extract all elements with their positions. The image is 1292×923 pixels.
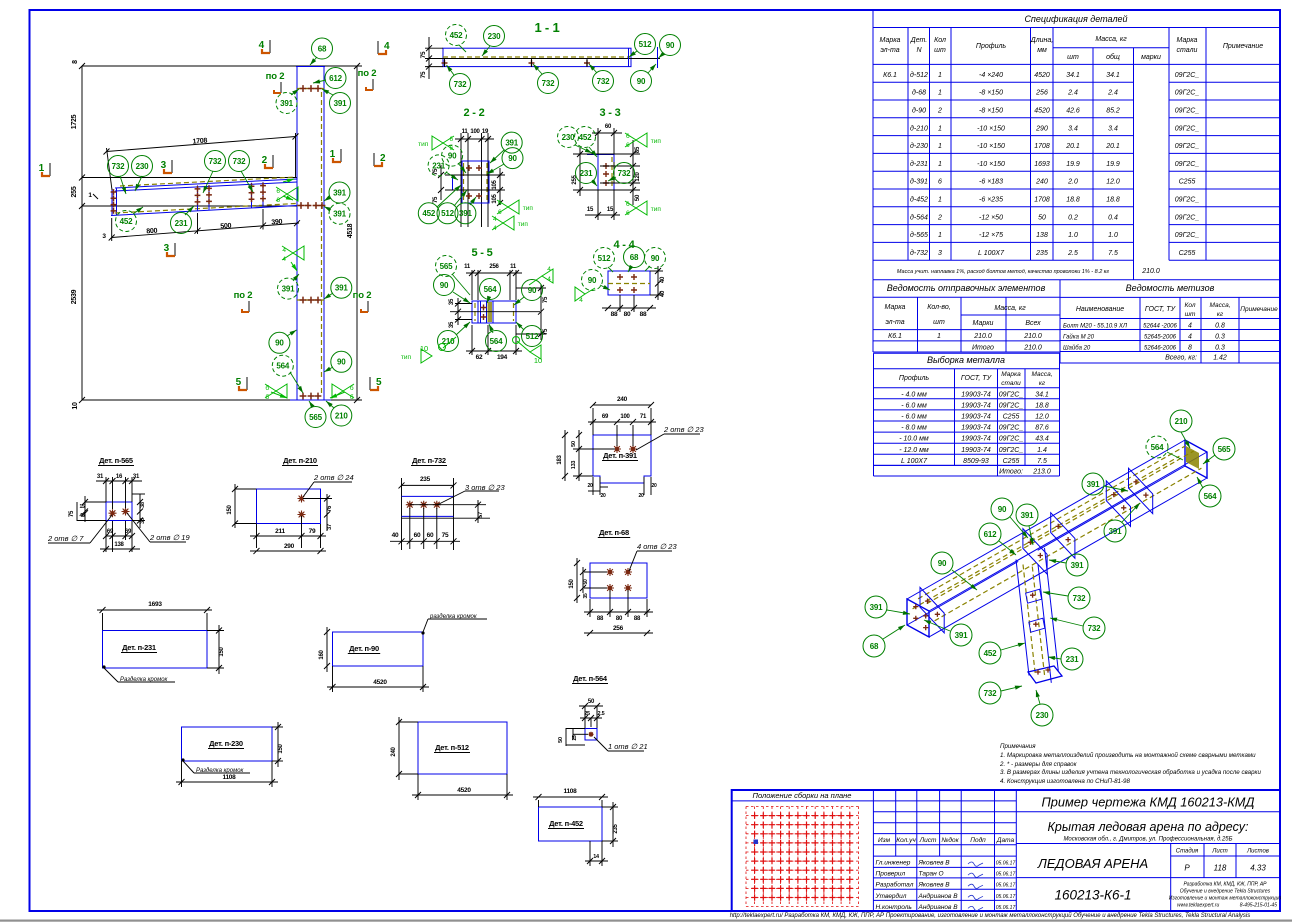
svg-text:60: 60 <box>414 532 421 539</box>
svg-text:2 отв ∅ 24: 2 отв ∅ 24 <box>313 473 354 482</box>
svg-text:75: 75 <box>420 71 427 78</box>
svg-text:1: 1 <box>938 143 942 150</box>
svg-text:Выборка металла: Выборка металла <box>927 355 1005 365</box>
svg-text:90: 90 <box>666 41 675 50</box>
svg-text:391: 391 <box>1109 527 1122 536</box>
svg-text:34.1: 34.1 <box>1035 391 1049 398</box>
svg-text:90: 90 <box>275 339 284 348</box>
svg-text:0.8: 0.8 <box>1215 323 1225 330</box>
svg-text:100: 100 <box>470 129 480 135</box>
svg-text:Дет. п-565: Дет. п-565 <box>99 456 133 465</box>
svg-text:19.9: 19.9 <box>1106 161 1120 168</box>
svg-text:11: 11 <box>462 129 469 135</box>
red assembly-position grid <box>746 807 859 907</box>
svg-text:19903-74: 19903-74 <box>961 414 991 421</box>
svg-text:6: 6 <box>626 142 630 149</box>
svg-text:52646-2006: 52646-2006 <box>1144 346 1177 352</box>
svg-text:2 отв ∅ 7: 2 отв ∅ 7 <box>47 534 84 543</box>
svg-text:Примечание: Примечание <box>1223 43 1263 50</box>
svg-text:Дет. п-391: Дет. п-391 <box>603 451 637 460</box>
svg-text:90: 90 <box>528 286 537 295</box>
svg-text:Примечания: Примечания <box>1000 743 1036 750</box>
svg-text:2: 2 <box>262 155 268 166</box>
svg-text:Марка: Марка <box>1001 371 1021 378</box>
svg-text:2.0: 2.0 <box>1067 179 1078 186</box>
column splice seams <box>297 88 324 90</box>
svg-text:09Г2С_: 09Г2С_ <box>1175 197 1200 204</box>
svg-text:8: 8 <box>72 60 79 64</box>
svg-text:шт: шт <box>933 319 945 326</box>
svg-text:по 2: по 2 <box>358 68 377 79</box>
svg-text:д-512: д-512 <box>910 71 928 79</box>
svg-text:390: 390 <box>271 219 283 227</box>
svg-text:50: 50 <box>571 441 577 447</box>
svg-text:512: 512 <box>598 254 611 263</box>
svg-text:71: 71 <box>640 414 647 420</box>
svg-text:2 отв ∅ 23: 2 отв ∅ 23 <box>663 425 704 434</box>
svg-text:3.4: 3.4 <box>1068 125 1078 132</box>
svg-text:231: 231 <box>175 219 188 228</box>
svg-text:80: 80 <box>616 616 623 622</box>
svg-text:-12 ×75: -12 ×75 <box>979 232 1003 239</box>
svg-text:19903-74: 19903-74 <box>961 425 991 432</box>
svg-text:564: 564 <box>484 285 497 294</box>
svg-text:4: 4 <box>259 40 265 51</box>
beam top view 1-1 <box>443 48 631 66</box>
green labels column base <box>305 407 326 428</box>
svg-text:564: 564 <box>1204 492 1217 501</box>
svg-text:6: 6 <box>276 188 280 195</box>
bottom grey strip <box>0 920 1292 922</box>
svg-text:452: 452 <box>984 649 997 658</box>
column angle plates 732 <box>1026 589 1042 603</box>
svg-text:50: 50 <box>588 699 595 705</box>
svg-text:4. Конструкция изготовлена по: 4. Конструкция изготовлена по СНиП-81-98 <box>1000 778 1130 785</box>
svg-text:мм: мм <box>1037 47 1047 54</box>
table Ведомость метизов <box>1060 280 1280 363</box>
svg-text:09Г2С_: 09Г2С_ <box>1175 90 1200 97</box>
svg-text:75: 75 <box>543 296 549 303</box>
svg-text:Масса, кг: Масса, кг <box>994 305 1026 312</box>
svg-text:6: 6 <box>626 201 630 208</box>
svg-text:290: 290 <box>1035 125 1048 132</box>
svg-text:90: 90 <box>637 77 646 86</box>
title texts <box>1016 811 1280 813</box>
svg-text:09Г2С_: 09Г2С_ <box>1175 72 1200 79</box>
svg-text:37: 37 <box>327 524 333 530</box>
svg-text:Дет. п-230: Дет. п-230 <box>209 739 243 748</box>
svg-text:2. * - размеры для справок: 2. * - размеры для справок <box>999 761 1078 768</box>
svg-text:кг: кг <box>1217 311 1224 318</box>
svg-text:Обучение и внедрение Tekla Str: Обучение и внедрение Tekla Structures <box>1180 889 1271 895</box>
svg-text:1708: 1708 <box>1034 143 1050 150</box>
svg-text:-6 ×235: -6 ×235 <box>979 197 1003 204</box>
svg-text:19.9: 19.9 <box>1066 161 1080 168</box>
svg-text:210.0: 210.0 <box>1023 345 1042 352</box>
svg-text:д-564: д-564 <box>910 213 928 221</box>
svg-text:800: 800 <box>146 228 158 236</box>
svg-text:88: 88 <box>611 311 618 318</box>
svg-text:1: 1 <box>938 72 942 79</box>
svg-text:85: 85 <box>635 146 641 153</box>
svg-text:732: 732 <box>112 162 125 171</box>
svg-text:3.4: 3.4 <box>1108 125 1118 132</box>
svg-text:С255: С255 <box>1179 179 1196 186</box>
svg-text:Положение сборки на плане: Положение сборки на плане <box>753 791 852 800</box>
svg-text:12.0: 12.0 <box>1106 179 1120 186</box>
green labels column mid <box>278 278 299 299</box>
svg-text:8-495-215-01-45: 8-495-215-01-45 <box>1240 903 1277 909</box>
svg-text:18.8: 18.8 <box>1106 197 1120 204</box>
svg-text:09Г2С_: 09Г2С_ <box>1175 214 1200 221</box>
svg-text:20: 20 <box>587 483 593 489</box>
svg-text:2.4: 2.4 <box>1107 90 1118 97</box>
green part labels beam <box>108 156 129 177</box>
svg-text:564: 564 <box>276 362 289 371</box>
svg-text:4 отв ∅ 23: 4 отв ∅ 23 <box>637 542 677 551</box>
svg-text:194: 194 <box>497 354 508 361</box>
svg-text:Дет. п-452: Дет. п-452 <box>549 819 583 828</box>
svg-text:20: 20 <box>651 483 657 489</box>
svg-text:150: 150 <box>227 504 233 514</box>
svg-text:38: 38 <box>140 518 146 524</box>
svg-text:90: 90 <box>440 281 449 290</box>
svg-text:256: 256 <box>613 625 624 632</box>
table Ведомость отправочных элементов <box>873 280 1060 352</box>
svg-text:19903-74: 19903-74 <box>961 447 991 454</box>
svg-text:09Г2С_: 09Г2С_ <box>999 402 1024 409</box>
svg-text:-10 ×150: -10 ×150 <box>977 161 1005 168</box>
svg-text:732: 732 <box>454 80 467 89</box>
svg-text:85.2: 85.2 <box>1106 108 1120 115</box>
svg-text:Разработка КМ, КМД, КЖ, ППР, А: Разработка КМ, КМД, КЖ, ППР, АР <box>1183 882 1267 888</box>
svg-text:д-732: д-732 <box>910 249 928 257</box>
svg-text:60: 60 <box>605 124 612 130</box>
svg-text:1693: 1693 <box>148 601 162 608</box>
svg-text:391: 391 <box>1021 511 1034 520</box>
beam end faces <box>907 599 929 637</box>
svg-text:80: 80 <box>624 311 631 318</box>
svg-text:09Г2С_: 09Г2С_ <box>999 425 1024 432</box>
svg-text:Итого: Итого <box>972 345 994 352</box>
svg-text:79: 79 <box>309 528 316 535</box>
svg-text:тип: тип <box>651 206 662 213</box>
detail п-90 <box>333 632 424 666</box>
svg-text:88: 88 <box>640 311 647 318</box>
1-1 labels <box>446 25 467 46</box>
svg-text:52644 -2006: 52644 -2006 <box>1143 324 1177 330</box>
svg-text:Андрианов В: Андрианов В <box>918 903 959 911</box>
svg-text:25: 25 <box>572 735 578 741</box>
svg-text:235: 235 <box>420 476 431 483</box>
svg-text:6: 6 <box>626 210 630 217</box>
svg-text:1.0: 1.0 <box>1068 232 1078 239</box>
svg-text:732: 732 <box>597 77 610 86</box>
svg-text:732: 732 <box>1073 594 1086 603</box>
svg-text:10: 10 <box>534 356 542 365</box>
svg-text:2.5: 2.5 <box>1067 250 1078 257</box>
svg-text:1.0: 1.0 <box>1108 232 1118 239</box>
svg-text:Профиль: Профиль <box>976 43 1007 50</box>
svg-text:д-391: д-391 <box>910 178 928 186</box>
svg-text:L 100X7: L 100X7 <box>978 250 1005 257</box>
svg-text:612: 612 <box>329 74 342 83</box>
svg-text:120: 120 <box>635 171 641 181</box>
svg-text:10: 10 <box>72 402 79 410</box>
svg-text:09Г2С_: 09Г2С_ <box>999 447 1024 454</box>
svg-text:391: 391 <box>870 603 883 612</box>
svg-text:1108: 1108 <box>222 774 236 781</box>
svg-text:20.1: 20.1 <box>1065 143 1080 150</box>
svg-text:4: 4 <box>493 225 497 232</box>
svg-text:Дет. п-564: Дет. п-564 <box>573 674 608 683</box>
svg-text:43.4: 43.4 <box>1035 436 1049 443</box>
svg-text:05.06.17: 05.06.17 <box>996 905 1016 911</box>
svg-text:по 2: по 2 <box>353 290 372 301</box>
svg-text:1: 1 <box>938 90 942 97</box>
svg-text:Дет. п-512: Дет. п-512 <box>435 743 469 752</box>
svg-text:512: 512 <box>441 209 454 218</box>
svg-text:4518: 4518 <box>347 223 354 238</box>
svg-text:L 100X7: L 100X7 <box>901 458 928 465</box>
svg-text:4: 4 <box>282 247 286 254</box>
detail п-452 <box>539 807 603 841</box>
svg-text:11: 11 <box>464 264 471 270</box>
svg-text:150: 150 <box>569 578 575 588</box>
svg-text:290: 290 <box>284 543 295 550</box>
svg-text:1108: 1108 <box>563 788 577 795</box>
svg-text:15: 15 <box>587 207 594 213</box>
dim 1708 <box>107 137 296 152</box>
svg-text:2 отв ∅ 19: 2 отв ∅ 19 <box>149 533 190 542</box>
svg-text:1: 1 <box>938 125 942 132</box>
svg-text:С255: С255 <box>1179 250 1196 257</box>
svg-text:210.0: 210.0 <box>1141 268 1160 275</box>
svg-text:256: 256 <box>489 264 499 270</box>
svg-text:90: 90 <box>998 505 1007 514</box>
olive seam dashes along beam <box>918 446 1185 599</box>
svg-text:1: 1 <box>938 232 942 239</box>
svg-text:Масса, кг: Масса, кг <box>1095 36 1127 43</box>
svg-text:19903-74: 19903-74 <box>961 436 991 443</box>
svg-text:564: 564 <box>1151 443 1164 452</box>
svg-text:3: 3 <box>164 243 170 254</box>
svg-text:183: 183 <box>557 454 563 464</box>
svg-text:д-452: д-452 <box>910 196 928 204</box>
svg-text:Дет. п-90: Дет. п-90 <box>349 644 379 653</box>
column olive dashes <box>1023 565 1035 674</box>
svg-text:150: 150 <box>219 646 225 656</box>
svg-text:Марки: Марки <box>973 320 994 327</box>
svg-text:по 2: по 2 <box>266 71 285 82</box>
svg-text:50: 50 <box>635 194 641 201</box>
svg-text:Кол: Кол <box>934 37 946 44</box>
svg-text:210: 210 <box>442 337 455 346</box>
svg-text:87.6: 87.6 <box>1035 425 1049 432</box>
svg-text:230: 230 <box>488 32 501 41</box>
svg-text:Шайба 20: Шайба 20 <box>1063 345 1091 352</box>
table Выборка металла <box>874 353 1060 476</box>
svg-text:4 - 4: 4 - 4 <box>613 239 635 251</box>
svg-text:Марка: Марка <box>880 37 901 44</box>
svg-text:Гл.инженер: Гл.инженер <box>876 860 911 867</box>
svg-text:Таран О: Таран О <box>919 871 944 878</box>
svg-text:4: 4 <box>579 297 583 304</box>
svg-text:тип: тип <box>651 138 662 145</box>
svg-text:С255: С255 <box>1003 458 1020 465</box>
svg-text:Марка: Марка <box>885 304 906 311</box>
svg-text:1.42: 1.42 <box>1213 355 1227 362</box>
svg-text:6: 6 <box>276 197 280 204</box>
svg-text:564: 564 <box>490 337 503 346</box>
svg-text:75: 75 <box>543 328 549 335</box>
svg-text:-8 ×150: -8 ×150 <box>979 108 1003 115</box>
svg-text:Длина,: Длина, <box>1030 37 1054 44</box>
svg-text:62: 62 <box>476 354 483 361</box>
beam stiffeners <box>197 185 199 210</box>
svg-text:2: 2 <box>937 214 942 221</box>
svg-text:Московская обл., г. Дмитров, у: Московская обл., г. Дмитров, ул. Професс… <box>1063 837 1232 843</box>
svg-text:Проверил: Проверил <box>876 871 906 878</box>
svg-text:612: 612 <box>984 530 997 539</box>
svg-text:Яковлев В: Яковлев В <box>918 882 951 889</box>
svg-text:732: 732 <box>984 689 997 698</box>
svg-text:шт: шт <box>1185 311 1196 318</box>
svg-text:http://teklaexpert.ru/ Разраб: http://teklaexpert.ru/ Разработка КМ, КМ… <box>730 912 1251 919</box>
isometric column <box>1016 560 1029 676</box>
svg-text:8: 8 <box>1188 345 1192 352</box>
svg-text:732: 732 <box>209 157 222 166</box>
svg-text:4: 4 <box>547 266 551 273</box>
svg-text:391: 391 <box>1087 480 1100 489</box>
svg-text:Дет.: Дет. <box>910 37 927 44</box>
svg-text:6: 6 <box>498 209 502 216</box>
svg-text:16: 16 <box>116 474 123 480</box>
svg-text:452: 452 <box>579 133 592 142</box>
svg-text:Всего, кг:: Всего, кг: <box>1165 355 1197 362</box>
svg-text:231: 231 <box>580 169 593 178</box>
svg-text:20.1: 20.1 <box>1105 143 1120 150</box>
svg-text:б: б <box>350 393 354 401</box>
svg-text:210.0: 210.0 <box>973 333 992 340</box>
svg-text:3: 3 <box>161 160 167 171</box>
svg-text:1.4: 1.4 <box>1037 447 1047 454</box>
svg-text:05.06.17: 05.06.17 <box>996 883 1016 889</box>
svg-text:565: 565 <box>1218 445 1231 454</box>
column K6.1 <box>296 67 298 401</box>
svg-text:12.0: 12.0 <box>1035 414 1049 421</box>
right end plates 564/565 olive hatch <box>1186 446 1199 469</box>
svg-text:- 4.0 мм: - 4.0 мм <box>901 391 927 398</box>
svg-text:тип: тип <box>401 354 412 361</box>
svg-text:Болт М20 - 55.10.9 ХЛ: Болт М20 - 55.10.9 ХЛ <box>1063 324 1128 330</box>
svg-text:- 12.0 мм: - 12.0 мм <box>899 447 929 454</box>
svg-text:Итого:: Итого: <box>999 469 1023 476</box>
svg-text:75: 75 <box>433 196 439 203</box>
svg-text:-8 ×150: -8 ×150 <box>979 90 1003 97</box>
svg-text:тип: тип <box>518 221 529 228</box>
svg-text:231: 231 <box>1066 655 1079 664</box>
svg-text:69: 69 <box>602 414 609 420</box>
svg-text:Н.контроль: Н.контроль <box>876 904 913 911</box>
svg-text:4: 4 <box>1188 334 1192 341</box>
svg-text:эл-та: эл-та <box>885 319 904 326</box>
svg-text:20: 20 <box>600 493 606 499</box>
svg-text:391: 391 <box>459 209 472 218</box>
svg-text:118: 118 <box>1214 864 1227 873</box>
svg-text:1708: 1708 <box>1034 197 1050 204</box>
svg-text:Дет. п-68: Дет. п-68 <box>599 528 629 537</box>
svg-text:д-565: д-565 <box>910 231 928 239</box>
svg-text:230: 230 <box>562 133 575 142</box>
svg-text:40: 40 <box>392 532 399 539</box>
svg-text:05.06.17: 05.06.17 <box>996 894 1016 900</box>
svg-text:90: 90 <box>651 254 660 263</box>
svg-text:ЛЕДОВАЯ АРЕНА: ЛЕДОВАЯ АРЕНА <box>1037 856 1148 871</box>
svg-text:Марка: Марка <box>1177 37 1198 44</box>
svg-text:240: 240 <box>617 396 628 403</box>
svg-text:Примечание: Примечание <box>1240 306 1278 313</box>
svg-text:52645-2006: 52645-2006 <box>1144 335 1177 341</box>
svg-text:09Г2С_: 09Г2С_ <box>999 391 1024 398</box>
svg-text:2.4: 2.4 <box>1067 90 1078 97</box>
svg-text:231: 231 <box>432 161 445 170</box>
svg-text:3: 3 <box>938 250 942 257</box>
svg-text:Масса учит. наплавка 1%, расхо: Масса учит. наплавка 1%, расход болтов м… <box>897 269 1109 275</box>
svg-text:2: 2 <box>937 108 942 115</box>
svg-text:512: 512 <box>526 332 539 341</box>
svg-text:0.3: 0.3 <box>1215 334 1225 341</box>
svg-text:09Г2С_: 09Г2С_ <box>1175 125 1200 132</box>
svg-text:38: 38 <box>140 502 146 508</box>
svg-text:стали: стали <box>1177 47 1198 54</box>
svg-text:ГОСТ, ТУ: ГОСТ, ТУ <box>1145 306 1177 313</box>
svg-text:Яковлев В: Яковлев В <box>918 860 951 867</box>
svg-text:7.5: 7.5 <box>1108 250 1118 257</box>
svg-text:50: 50 <box>1038 214 1046 221</box>
svg-text:160213-К6-1: 160213-К6-1 <box>1054 888 1131 903</box>
svg-text:230: 230 <box>136 162 149 171</box>
svg-text:15: 15 <box>79 504 85 510</box>
svg-text:10: 10 <box>420 344 428 353</box>
svg-text:Пример чертежа КМД 160213-КМД: Пример чертежа КМД 160213-КМД <box>1042 795 1255 810</box>
svg-text:235: 235 <box>613 823 619 833</box>
svg-text:5: 5 <box>376 377 382 388</box>
svg-text:Дата: Дата <box>996 837 1015 844</box>
svg-text:0.3: 0.3 <box>1215 345 1225 352</box>
svg-text:Всех: Всех <box>1025 320 1041 327</box>
svg-text:6: 6 <box>938 179 942 186</box>
svg-text:1708: 1708 <box>192 137 207 145</box>
svg-text:б: б <box>350 384 354 392</box>
svg-text:Р: Р <box>1184 864 1190 873</box>
left end plate bolts <box>913 604 918 609</box>
svg-text:Масса,: Масса, <box>1209 302 1230 309</box>
notes Примечания <box>999 743 1261 785</box>
svg-text:Подп: Подп <box>970 836 986 844</box>
svg-text:100: 100 <box>620 414 630 420</box>
svg-text:90: 90 <box>588 276 597 285</box>
svg-text:1: 1 <box>938 161 942 168</box>
svg-text:09Г2С_: 09Г2С_ <box>1175 108 1200 115</box>
svg-text:д-230: д-230 <box>910 142 928 150</box>
svg-text:3. В размерах длины изделия уч: 3. В размерах длины изделия учтена техно… <box>1000 769 1261 776</box>
detail п-230 <box>182 727 273 761</box>
svg-text:4: 4 <box>282 256 286 263</box>
svg-text:34.1: 34.1 <box>1066 72 1080 79</box>
svg-text:Крытая ледовая арена по адресу: Крытая ледовая арена по адресу: <box>1048 820 1249 834</box>
svg-text:Лист: Лист <box>1211 849 1227 855</box>
